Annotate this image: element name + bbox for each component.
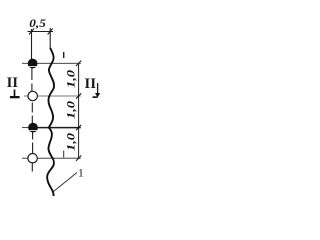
svg-text:1: 1 (78, 168, 84, 180)
spot weld point 3 (filled circle) (29, 123, 38, 132)
oblique tick right of 0,5 (48, 29, 53, 35)
dimension line 0,5 (28, 31, 54, 33)
svg-text:0,5: 0,5 (29, 18, 46, 30)
right dimension chain line (78, 63, 80, 159)
horizontal line through weld point 2 (section line II-II) (24, 95, 81, 97)
section arrow (left, pointing down) (14, 90, 16, 97)
extension line (right) of 0,5 dimension (49, 28, 51, 49)
svg-text:1,0: 1,0 (63, 70, 77, 88)
oblique tick at y=63 (76, 61, 81, 66)
section arrow (right, pointing down) (97, 83, 99, 93)
horizontal line through weld point 3 (22, 127, 33, 129)
wavy break line (sheet edge) (47, 48, 54, 196)
hidden-edge dash (63, 52, 65, 58)
spot weld point 1 (filled circle) (28, 59, 37, 68)
svg-text:1,0: 1,0 (63, 133, 77, 151)
spot weld point 4 (open circle) (28, 154, 37, 163)
spot weld point 2 (open circle) (28, 91, 37, 100)
oblique tick at y=158.2 (76, 156, 81, 161)
centerline of weld row (vertical, dashed) (32, 29, 33, 172)
oblique tick left of 0,5 (29, 29, 34, 35)
svg-text:II: II (85, 76, 97, 92)
leader line to sheet (54, 173, 78, 192)
stub under lower 1,0 (63, 151, 65, 158)
oblique tick at y=96 (76, 93, 81, 98)
svg-text:1,0: 1,0 (63, 101, 77, 119)
horizontal line through weld point 1 (22, 62, 81, 64)
horizontal line through weld point 4 (22, 157, 81, 159)
svg-text:II: II (7, 75, 19, 91)
oblique tick at y=127.6 (76, 125, 81, 130)
